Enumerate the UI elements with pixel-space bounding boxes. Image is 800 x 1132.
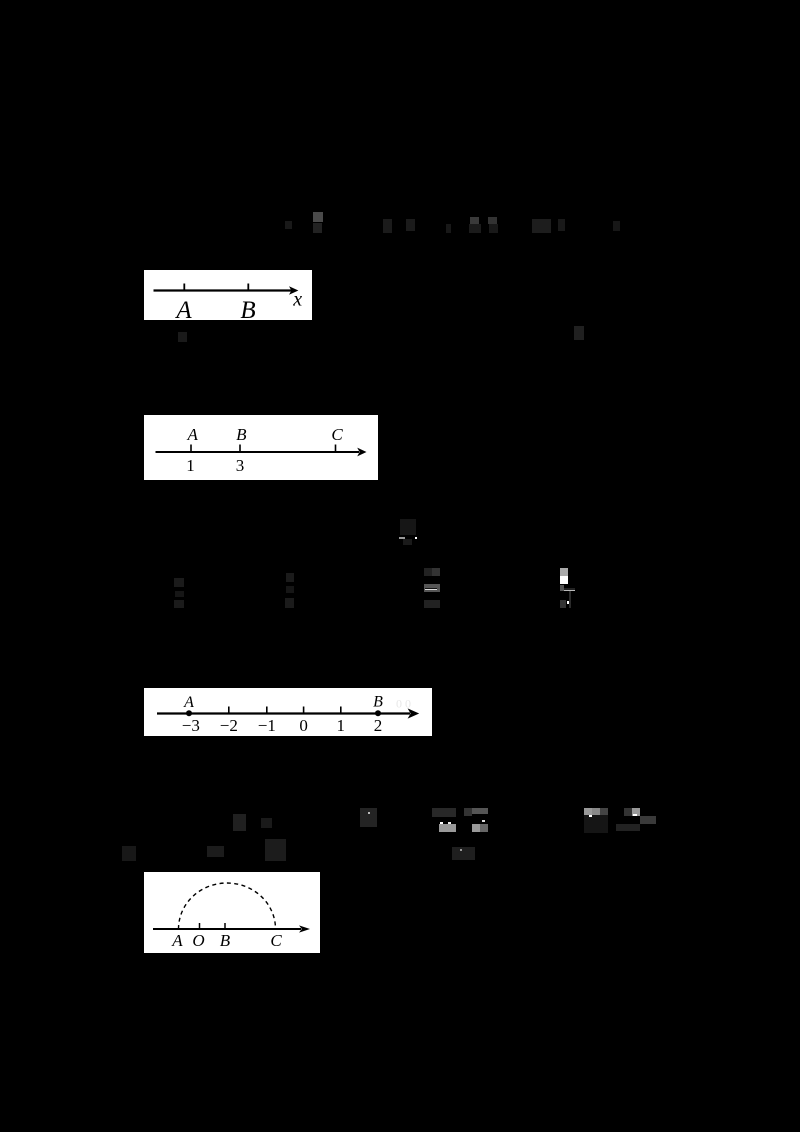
tick -1 <box>266 707 268 714</box>
svg-text:C: C <box>331 425 343 444</box>
svg-text:A: A <box>174 297 192 320</box>
tick 1 <box>340 707 342 714</box>
axis line <box>156 451 360 453</box>
point A dot <box>186 710 192 716</box>
arrowhead <box>357 448 366 457</box>
svg-text:3: 3 <box>236 456 245 475</box>
axis line <box>157 712 410 714</box>
dashed semicircle arc <box>179 883 276 929</box>
ghost option C fraction <box>424 568 432 576</box>
svg-text:−2: −2 <box>220 716 238 735</box>
arrowhead <box>408 708 420 718</box>
ghost block A3 <box>584 808 592 815</box>
figure 2 panel (number line with A=1, B=3, C) <box>144 415 378 480</box>
svg-text:O: O <box>192 931 204 950</box>
axis line <box>153 928 301 930</box>
ghost options row near question 13 <box>233 814 246 831</box>
tick O <box>199 923 201 929</box>
arrowhead <box>289 286 298 295</box>
svg-text:−3: −3 <box>182 716 200 735</box>
svg-text:A: A <box>171 931 183 950</box>
tick A <box>183 284 185 291</box>
svg-text:B: B <box>240 297 255 320</box>
tick B <box>239 445 241 453</box>
svg-text:B: B <box>220 931 231 950</box>
tick A <box>190 445 192 453</box>
svg-text:B: B <box>236 425 247 444</box>
ghost equation fragments row 1 <box>313 212 323 222</box>
tick B <box>224 923 226 929</box>
ghost mark row 2 <box>178 332 187 342</box>
svg-text:1: 1 <box>337 716 346 735</box>
point B dot <box>375 710 381 716</box>
svg-text:x: x <box>292 289 302 311</box>
ghost option D fraction <box>560 568 568 576</box>
figure 4 panel (dashed semicircle over number line A O B C) <box>144 872 320 953</box>
svg-text:A: A <box>183 694 194 711</box>
ghost option A <box>174 578 184 587</box>
svg-text:0: 0 <box>299 716 308 735</box>
ghost block A2 <box>464 808 472 816</box>
figure 1 panel (number line with points A, B, axis x) <box>144 270 312 320</box>
svg-text:0 0: 0 0 <box>396 697 411 711</box>
tick 0 <box>303 707 305 714</box>
tick -2 <box>228 707 230 714</box>
figure 3 panel (number line -3..2 with dots A and B) <box>144 688 432 736</box>
ghost fraction above options <box>400 519 416 535</box>
ghost row lower <box>122 846 136 861</box>
svg-text:2: 2 <box>374 716 383 735</box>
svg-text:A: A <box>187 425 199 444</box>
ghost block A4 <box>624 808 632 816</box>
arrowhead <box>299 925 310 932</box>
tick B <box>247 284 249 291</box>
svg-text:1: 1 <box>186 456 195 475</box>
ghost block A1 <box>432 808 456 817</box>
svg-text:B: B <box>373 694 383 711</box>
axis line <box>154 289 293 291</box>
svg-text:−1: −1 <box>258 716 276 735</box>
ghost option B <box>286 573 294 582</box>
tick C <box>335 445 337 453</box>
svg-text:C: C <box>270 931 282 950</box>
